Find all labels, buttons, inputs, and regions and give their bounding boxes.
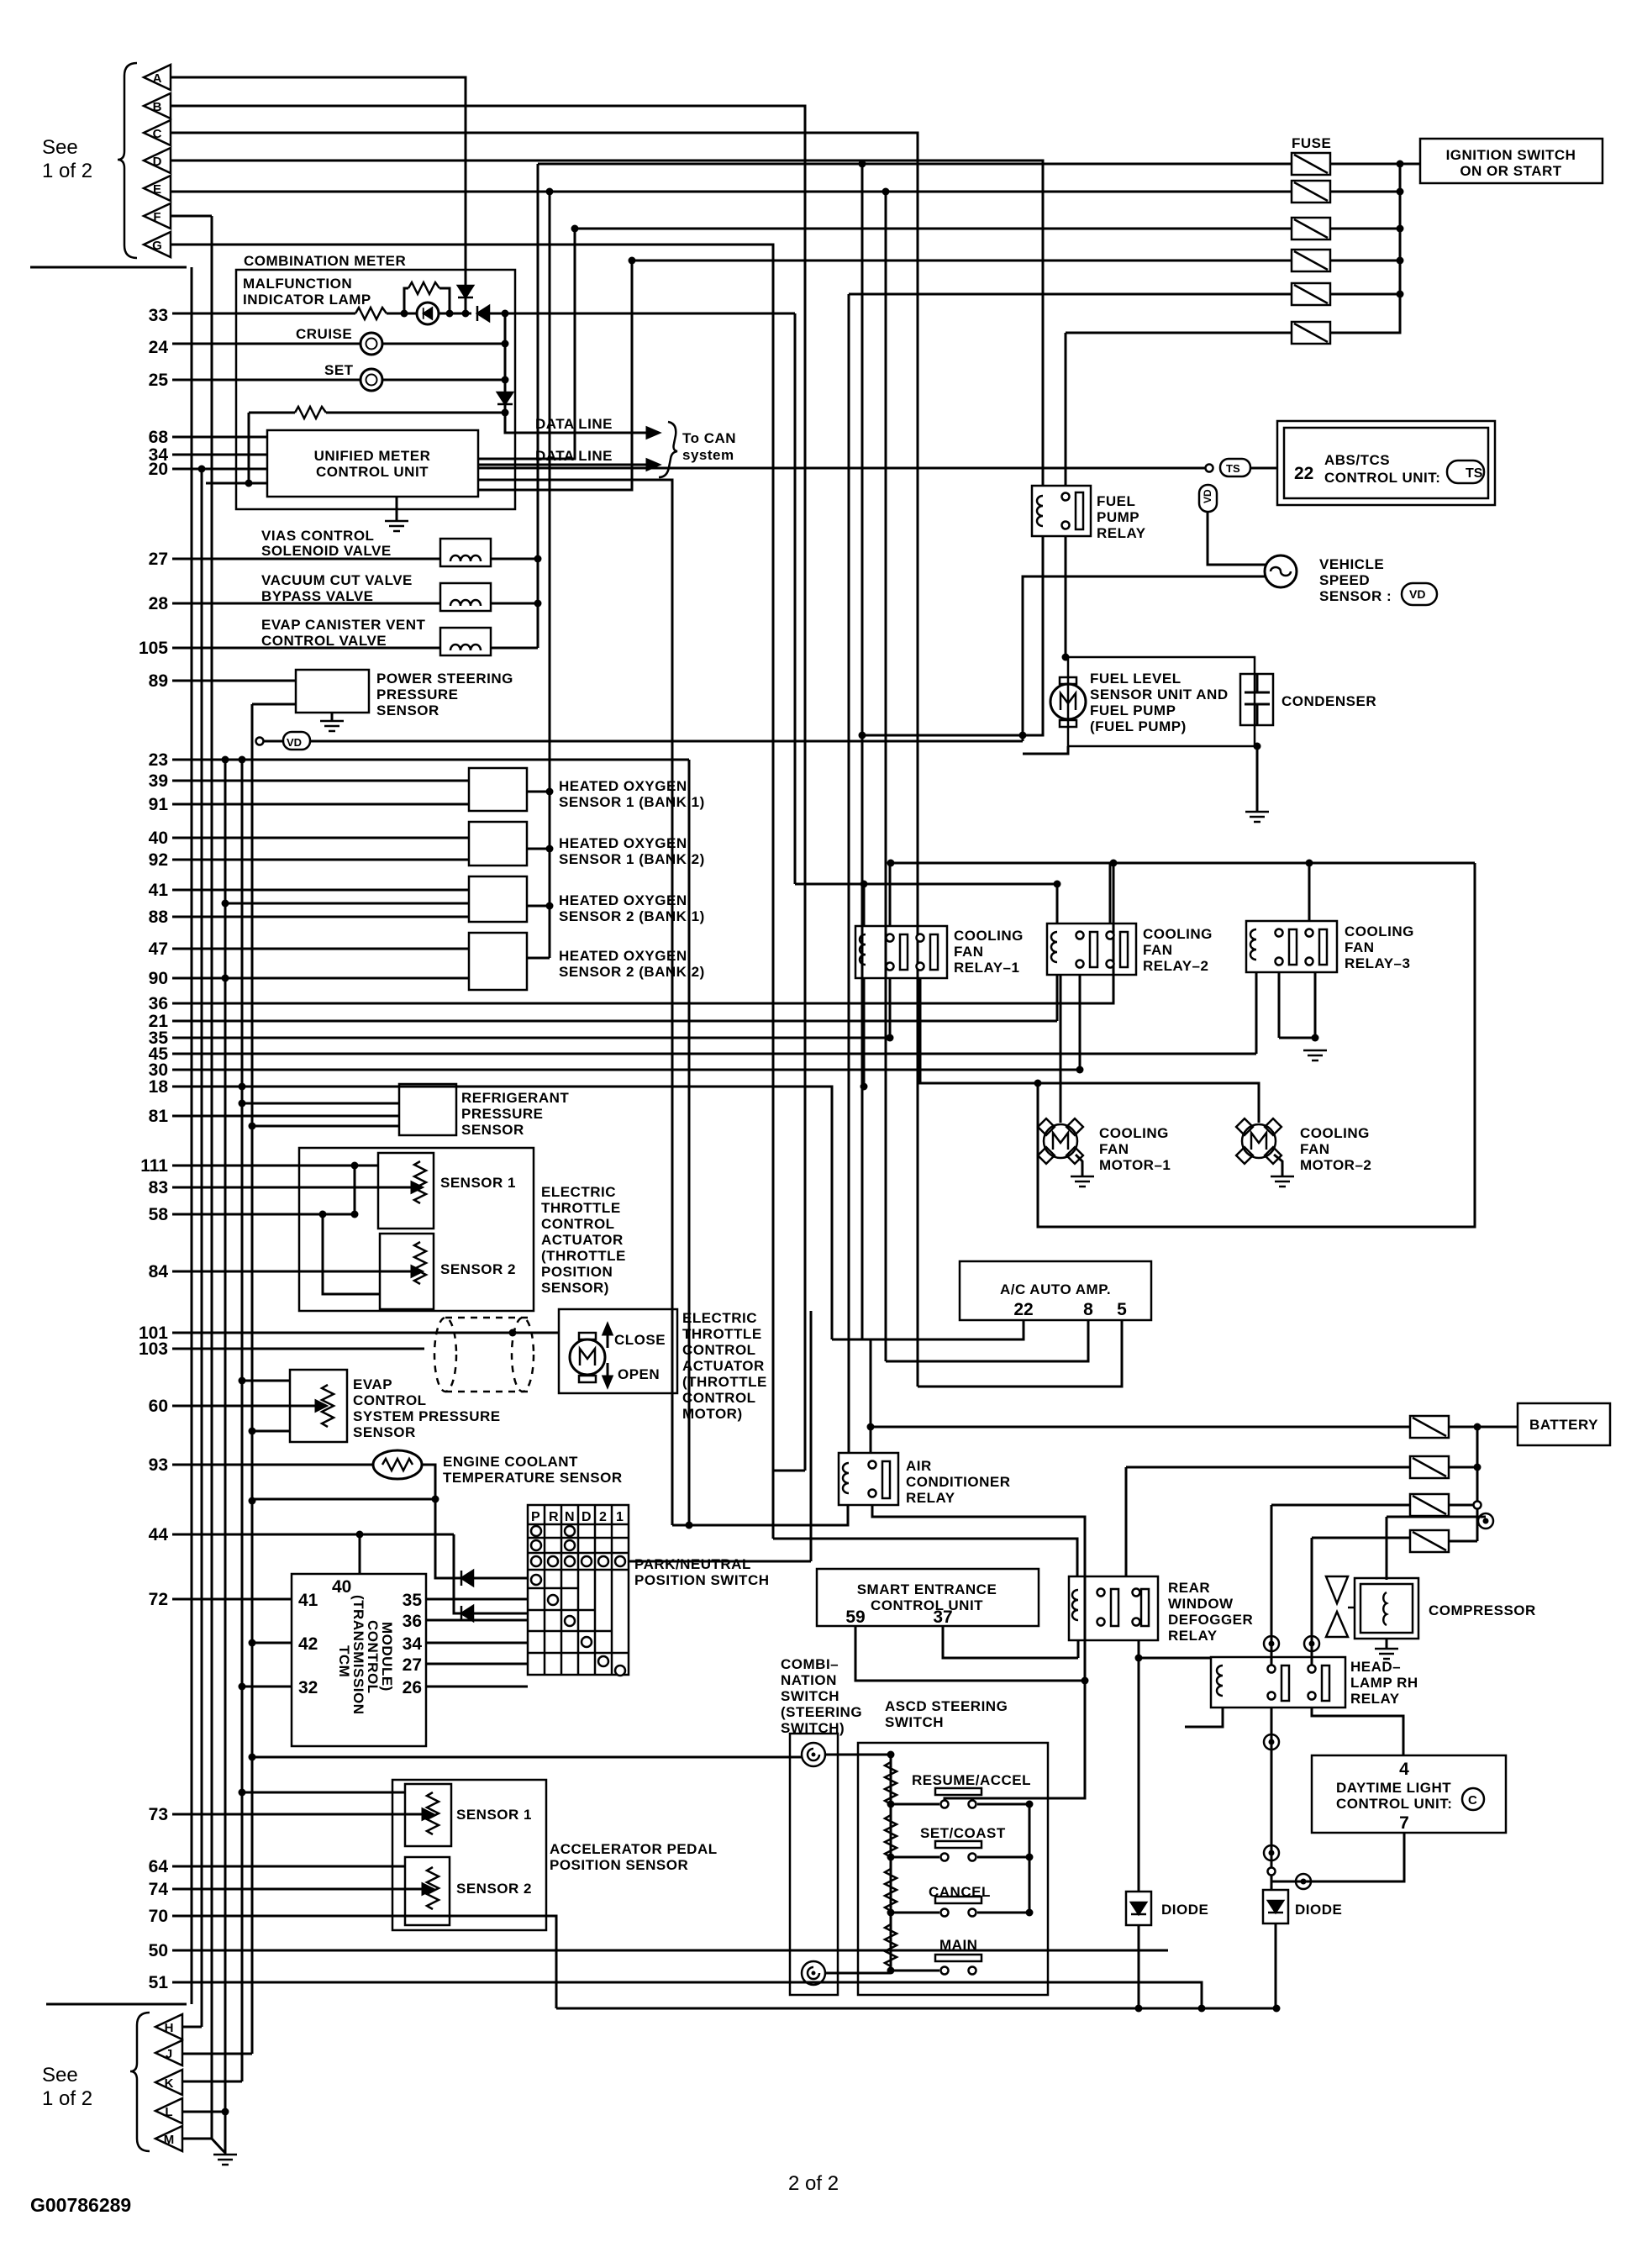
headlamp RH relay — [1211, 1657, 1345, 1708]
wire 84 with arrow — [172, 1271, 412, 1273]
svg-text:ACCELERATOR PEDAL: ACCELERATOR PEDAL — [550, 1841, 718, 1857]
svg-text:VD: VD — [1202, 489, 1213, 503]
svg-text:TCM: TCM — [336, 1645, 352, 1677]
svg-text:INDICATOR LAMP: INDICATOR LAMP — [243, 292, 371, 308]
wire A — [171, 77, 466, 313]
sensor feed top — [242, 1792, 405, 1794]
resistor loop above MIL — [404, 288, 408, 313]
combination meter box — [236, 270, 515, 509]
defogger contact output — [1138, 1640, 1140, 1658]
connector M — [155, 2126, 182, 2151]
svg-text:E: E — [153, 182, 161, 197]
cooling fan motor-2 — [1236, 1118, 1281, 1164]
connector J — [155, 2040, 182, 2065]
pin 22 stub — [832, 1320, 1024, 1339]
svg-text:F: F — [153, 210, 161, 224]
fuse 3 — [1292, 218, 1330, 239]
meter exit 1 — [478, 229, 575, 459]
connector A — [144, 65, 171, 90]
svg-text:2 of 2: 2 of 2 — [788, 2172, 839, 2195]
G wire to defogger — [773, 1539, 1077, 1576]
left separator bottom — [46, 2003, 187, 2006]
VIAS control solenoid valve — [440, 539, 491, 566]
fuse B feed to defogger — [1126, 1466, 1410, 1469]
heated oxygen sensor 2 bank 2 box — [469, 933, 527, 990]
svg-text:RELAY–1: RELAY–1 — [954, 960, 1019, 976]
svg-text:SENSOR 2 (BANK 2): SENSOR 2 (BANK 2) — [559, 964, 705, 980]
connector D — [144, 148, 171, 173]
trunk vertical 3 — [211, 216, 213, 2139]
AC relay contact feed — [870, 1339, 872, 1453]
svg-text:AIR: AIR — [906, 1458, 932, 1474]
connector K — [155, 2070, 182, 2095]
svg-text:(STEERING: (STEERING — [781, 1704, 862, 1720]
relay top feed line — [795, 883, 1057, 886]
svg-text:40: 40 — [332, 1577, 351, 1597]
throttle motor box — [559, 1309, 677, 1393]
connector F — [144, 203, 171, 229]
grid circles — [531, 1526, 541, 1536]
wire K — [182, 2081, 242, 2083]
battery box — [1518, 1403, 1610, 1445]
svg-text:41: 41 — [298, 1591, 318, 1610]
trunk vertical 5 — [241, 760, 244, 2081]
main row — [887, 1967, 895, 1975]
svg-text:See: See — [42, 2064, 78, 2086]
svg-text:HEATED OXYGEN: HEATED OXYGEN — [559, 892, 687, 908]
svg-text:22: 22 — [1294, 464, 1313, 483]
wire 83 with arrow — [172, 1187, 412, 1189]
wire 33 — [172, 313, 355, 315]
svg-text:SYSTEM PRESSURE: SYSTEM PRESSURE — [353, 1408, 501, 1424]
svg-text:SENSOR :: SENSOR : — [1319, 588, 1392, 604]
svg-text:LAMP RH: LAMP RH — [1350, 1675, 1418, 1691]
evap feed top — [242, 1380, 290, 1382]
vertical 946 from 33 row — [794, 313, 797, 884]
svg-text:23: 23 — [149, 750, 168, 770]
svg-text:SENSOR 1 (BANK 1): SENSOR 1 (BANK 1) — [559, 794, 705, 810]
resistor on MIL row — [355, 308, 387, 319]
wire from grid row to vertical — [629, 1560, 811, 1563]
battery fuse C — [1410, 1494, 1449, 1516]
diode branch 2 — [454, 1534, 528, 1613]
headlamp relay contact to daytime 4 — [1312, 1708, 1403, 1755]
svg-text:TS: TS — [1466, 466, 1483, 481]
svg-text:FUEL LEVEL: FUEL LEVEL — [1090, 671, 1182, 687]
svg-text:91: 91 — [149, 795, 169, 814]
svg-text:MALFUNCTION: MALFUNCTION — [243, 276, 352, 292]
svg-text:VD: VD — [287, 736, 302, 749]
svg-text:ABS/TCS: ABS/TCS — [1324, 452, 1390, 468]
wire G — [171, 245, 773, 1539]
svg-text:93: 93 — [149, 1455, 168, 1475]
svg-text:MODULE): MODULE) — [379, 1622, 395, 1692]
wire C — [171, 133, 918, 1387]
ground under unified meter — [396, 497, 398, 521]
svg-text:81: 81 — [149, 1107, 169, 1126]
svg-text:SENSOR): SENSOR) — [541, 1280, 609, 1296]
cruise indicator — [361, 333, 382, 355]
sensor 1 box — [378, 1153, 434, 1229]
svg-text:CONTROL UNIT:: CONTROL UNIT: — [1324, 470, 1440, 486]
svg-text:COOLING: COOLING — [954, 928, 1024, 944]
wire 51 — [172, 1982, 1202, 2008]
wire 70 — [172, 1916, 556, 2008]
relay-1 output to motor-2 — [920, 978, 1259, 1123]
headlamp relay contact down to diode2 — [1271, 1708, 1273, 1890]
evap feed bottom — [252, 1430, 290, 1433]
svg-text:41: 41 — [149, 881, 169, 900]
junction dots on trunks — [198, 466, 206, 473]
TCM 32 feed — [242, 1686, 292, 1688]
wire 58 — [172, 1213, 355, 1216]
svg-text:SENSOR 1: SENSOR 1 — [456, 1807, 532, 1823]
connector B — [144, 93, 171, 118]
svg-text:SPEED: SPEED — [1319, 572, 1370, 588]
battery bus vertical — [1449, 1426, 1477, 1429]
svg-text:72: 72 — [149, 1590, 168, 1609]
data line 2 — [478, 464, 647, 466]
svg-text:REAR: REAR — [1168, 1580, 1210, 1596]
wire 60 with arrow — [172, 1405, 316, 1408]
svg-text:COMPRESSOR: COMPRESSOR — [1429, 1602, 1536, 1618]
svg-text:84: 84 — [149, 1262, 169, 1281]
compressor ground — [1386, 1639, 1388, 1649]
svg-text:ELECTRIC: ELECTRIC — [541, 1184, 616, 1200]
wire 28 — [172, 603, 440, 605]
svg-text:SENSOR 1: SENSOR 1 — [440, 1175, 516, 1191]
heated oxygen sensor 2 bank 1 box — [469, 876, 527, 922]
bottom long rail — [556, 2008, 1276, 2010]
svg-text:64: 64 — [149, 1857, 169, 1876]
smart entrance control unit box — [817, 1569, 1039, 1626]
wire J — [182, 2053, 252, 2055]
svg-text:DAYTIME LIGHT: DAYTIME LIGHT — [1336, 1780, 1451, 1796]
wire 81 — [172, 1115, 399, 1118]
svg-text:HEATED OXYGEN: HEATED OXYGEN — [559, 778, 687, 794]
svg-text:C: C — [1468, 1793, 1477, 1808]
data line 1 — [505, 413, 647, 433]
svg-text:K: K — [165, 2076, 174, 2091]
wire 105 — [172, 647, 440, 650]
ground under ps sensor — [331, 713, 334, 721]
wire 64 — [172, 1865, 405, 1868]
wire 23 — [172, 759, 689, 761]
wire 103 — [172, 1348, 424, 1350]
svg-text:60: 60 — [149, 1397, 168, 1416]
MIL lamp LED — [417, 303, 439, 324]
headlamp relay coil return — [1185, 1708, 1223, 1727]
svg-text:RELAY–2: RELAY–2 — [1143, 958, 1208, 974]
A/C auto amp box — [960, 1261, 1151, 1320]
svg-text:SENSOR UNIT AND: SENSOR UNIT AND — [1090, 687, 1229, 703]
trunk vertical 6 — [251, 704, 254, 2054]
wire 25 set — [172, 379, 361, 382]
svg-text:33: 33 — [149, 306, 168, 325]
svg-text:44: 44 — [149, 1525, 169, 1544]
svg-text:51: 51 — [149, 1973, 169, 1992]
defogger coil return — [1077, 1640, 1080, 1658]
svg-text:26: 26 — [403, 1678, 422, 1697]
park/neutral position switch grid — [528, 1505, 629, 1675]
svg-text:B: B — [153, 100, 162, 114]
battery fuse A — [1410, 1416, 1449, 1438]
defogger relay coil to diode 1 — [1138, 1658, 1140, 1892]
sensor 2 box — [405, 1857, 450, 1925]
svg-text:HEATED OXYGEN: HEATED OXYGEN — [559, 948, 687, 964]
vehicle speed sensor wire — [1208, 512, 1266, 565]
vertical from fuse5 — [848, 294, 850, 1453]
TCM right pins to grid — [426, 1598, 528, 1601]
svg-text:88: 88 — [149, 908, 169, 927]
svg-text:H: H — [165, 2021, 174, 2035]
fuse C feed to headlamp relay — [1271, 1504, 1410, 1507]
svg-text:PRESSURE: PRESSURE — [461, 1106, 544, 1122]
vacuum cut valve bypass valve — [440, 583, 491, 611]
fuel pump relay box — [1032, 486, 1091, 536]
open arrow — [607, 1363, 609, 1385]
44 to TCM pin 40 — [359, 1534, 361, 1574]
resume/accel row — [887, 1801, 895, 1808]
svg-text:BATTERY: BATTERY — [1529, 1417, 1598, 1433]
refrigerant feed bottom — [252, 1125, 399, 1128]
spiral to ASCD rail — [825, 1754, 891, 1756]
close arrow — [607, 1326, 609, 1348]
svg-text:COOLING: COOLING — [1300, 1125, 1370, 1141]
compressor feed — [1387, 1516, 1486, 1518]
refrigerant pressure sensor box — [399, 1084, 456, 1135]
svg-text:FAN: FAN — [1345, 939, 1375, 955]
TCM 42 feed — [252, 1642, 292, 1644]
svg-text:FAN: FAN — [1300, 1141, 1330, 1157]
svg-text:SWITCH: SWITCH — [885, 1714, 944, 1730]
wire 73 with arrow — [172, 1813, 423, 1816]
svg-text:VACUUM CUT VALVE: VACUUM CUT VALVE — [261, 572, 413, 588]
connector C — [144, 120, 171, 145]
fuel pump relay coil return — [862, 536, 1043, 735]
svg-text:CONTROL UNIT:: CONTROL UNIT: — [1336, 1796, 1452, 1812]
svg-text:24: 24 — [149, 338, 169, 357]
VD capsule on vertical — [1199, 485, 1217, 512]
O2 common rail vertical — [549, 192, 551, 958]
svg-text:TS: TS — [1226, 462, 1240, 475]
svg-text:UNIFIED METER: UNIFIED METER — [314, 448, 431, 464]
wire 89 — [172, 680, 296, 682]
fuse 5 — [1292, 283, 1330, 305]
svg-text:COMBI–: COMBI– — [781, 1656, 839, 1672]
ABS/TCS control unit box — [1277, 421, 1495, 505]
circled connectors above headlamp relay — [1264, 1636, 1279, 1651]
svg-text:83: 83 — [149, 1178, 168, 1197]
svg-text:25: 25 — [149, 371, 169, 390]
svg-text:CONTROL VALVE: CONTROL VALVE — [261, 633, 387, 649]
EVAP control system pressure sensor box — [290, 1370, 347, 1442]
cooling fan relay-3 — [1246, 921, 1337, 972]
svg-text:SET/COAST: SET/COAST — [920, 1825, 1006, 1841]
svg-text:FAN: FAN — [1143, 942, 1173, 958]
condenser — [1240, 674, 1273, 725]
diode column vertical — [504, 313, 507, 433]
svg-text:37: 37 — [933, 1608, 952, 1627]
trunk vertical 1054 — [885, 192, 887, 1361]
svg-text:SMART ENTRANCE: SMART ENTRANCE — [857, 1581, 997, 1597]
wire D to fuel pump relay — [171, 160, 1043, 486]
svg-text:CONTROL: CONTROL — [682, 1342, 756, 1358]
svg-text:See: See — [42, 136, 78, 159]
fuse 3 feed line — [575, 228, 1292, 230]
TCM box — [292, 1574, 426, 1746]
ignition switch box — [1420, 139, 1603, 183]
meter exit 3 — [478, 480, 672, 1525]
svg-text:28: 28 — [149, 594, 169, 613]
svg-text:SENSOR 2: SENSOR 2 — [440, 1261, 516, 1277]
svg-text:CLOSE: CLOSE — [614, 1332, 666, 1348]
svg-text:RELAY: RELAY — [906, 1490, 955, 1506]
fuse 2 — [1292, 181, 1330, 203]
svg-text:system: system — [682, 447, 734, 463]
svg-text:RELAY–3: RELAY–3 — [1345, 955, 1410, 971]
fuse outputs to ignition bus — [1330, 163, 1420, 166]
svg-text:EVAP CANISTER VENT: EVAP CANISTER VENT — [261, 617, 426, 633]
svg-text:N: N — [565, 1510, 575, 1524]
wire B — [171, 106, 805, 1471]
EVAP canister vent control valve — [440, 628, 491, 655]
svg-text:COMBINATION METER: COMBINATION METER — [244, 253, 406, 269]
svg-text:M: M — [164, 2133, 175, 2147]
wire 74 with arrow — [172, 1888, 423, 1891]
svg-text:D: D — [582, 1510, 592, 1524]
ps sensor second wire — [252, 703, 296, 706]
wire H — [182, 2026, 202, 2029]
svg-text:4: 4 — [1399, 1760, 1409, 1779]
wire 36 — [172, 863, 1113, 1003]
svg-text:SENSOR 1 (BANK 2): SENSOR 1 (BANK 2) — [559, 851, 705, 867]
trunk vertical 2 — [201, 469, 203, 2027]
svg-text:(TRANSMISSION: (TRANSMISSION — [350, 1595, 366, 1715]
TS oval in ABS label — [1447, 460, 1484, 483]
fuse 1 — [1292, 153, 1330, 175]
svg-text:SET: SET — [324, 362, 354, 378]
svg-text:A/C AUTO AMP.: A/C AUTO AMP. — [1000, 1281, 1111, 1297]
svg-text:DIODE: DIODE — [1161, 1902, 1208, 1918]
svg-text:36: 36 — [403, 1612, 422, 1631]
wire 101 — [172, 1332, 559, 1334]
svg-text:1: 1 — [616, 1510, 624, 1524]
diode down on column — [497, 392, 513, 404]
TS connector on wire — [1206, 465, 1213, 472]
wire 30 — [172, 1069, 1078, 1071]
wire 34 — [172, 454, 267, 456]
fuel pump relay feed — [1065, 333, 1067, 486]
svg-text:ELECTRIC: ELECTRIC — [682, 1310, 757, 1326]
svg-text:CONTROL: CONTROL — [541, 1216, 615, 1232]
wire 50 — [172, 1950, 1168, 1952]
connector H — [155, 2014, 182, 2039]
sensor 1 box — [405, 1784, 451, 1846]
svg-text:MOTOR–1: MOTOR–1 — [1099, 1157, 1171, 1173]
svg-text:SOLENOID VALVE: SOLENOID VALVE — [261, 543, 392, 559]
sensor 2 box — [380, 1234, 434, 1309]
svg-text:THROTTLE: THROTTLE — [541, 1200, 621, 1216]
svg-text:74: 74 — [149, 1880, 169, 1899]
svg-text:(THROTTLE: (THROTTLE — [541, 1248, 626, 1264]
svg-text:36: 36 — [149, 994, 168, 1013]
electric throttle actuator box — [299, 1148, 534, 1311]
svg-text:PARK/NEUTRAL: PARK/NEUTRAL — [634, 1556, 751, 1572]
rail resistors — [885, 1762, 897, 1804]
fuse 4 — [1292, 250, 1330, 271]
fuse 6 — [1292, 322, 1330, 344]
brace to CAN — [659, 422, 677, 477]
svg-text:CONDITIONER: CONDITIONER — [906, 1474, 1011, 1490]
bottom spiral — [802, 1961, 825, 1985]
svg-text:POWER STEERING: POWER STEERING — [376, 671, 513, 687]
svg-text:FUEL PUMP: FUEL PUMP — [1090, 703, 1176, 718]
ECT return wire — [252, 1465, 435, 1499]
svg-text:MAIN: MAIN — [939, 1937, 977, 1953]
svg-text:IGNITION SWITCH: IGNITION SWITCH — [1446, 147, 1576, 163]
svg-text:105: 105 — [139, 639, 168, 658]
svg-text:SENSOR: SENSOR — [376, 703, 439, 718]
wire 27 — [172, 558, 440, 560]
svg-text:34: 34 — [403, 1634, 423, 1654]
svg-text:MOTOR): MOTOR) — [682, 1406, 743, 1422]
wire 72 to TCM 41 — [172, 1598, 292, 1601]
svg-text:FUSE: FUSE — [1292, 135, 1331, 151]
wire E to fuse 2 — [171, 191, 1292, 193]
daytime light control unit box — [1312, 1755, 1506, 1833]
wire L — [182, 2111, 225, 2113]
right rail — [1029, 1804, 1031, 1913]
cooling fan motor-1 — [1038, 1118, 1083, 1164]
trunk vertical 1 — [191, 267, 193, 2004]
fuse D feed — [1312, 1537, 1410, 1539]
svg-text:40: 40 — [149, 829, 168, 848]
svg-text:DATA LINE: DATA LINE — [535, 448, 613, 464]
vehicle speed sensor circle — [1265, 555, 1297, 587]
battery fuse B — [1410, 1456, 1449, 1478]
svg-text:7: 7 — [1399, 1813, 1409, 1833]
svg-text:WINDOW: WINDOW — [1168, 1596, 1234, 1612]
B join — [773, 1470, 805, 1472]
svg-text:73: 73 — [149, 1805, 168, 1824]
svg-text:(THROTTLE: (THROTTLE — [682, 1374, 767, 1390]
spiral feed line from left — [252, 1756, 802, 1759]
pin 7 stub — [1271, 1833, 1404, 1881]
svg-text:70: 70 — [149, 1907, 168, 1926]
trunk vertical 4 — [224, 760, 227, 2155]
svg-text:CONTROL UNIT: CONTROL UNIT — [871, 1597, 983, 1613]
svg-text:59: 59 — [845, 1608, 865, 1627]
set/coast row — [887, 1854, 895, 1861]
cooling fan relay-1 — [855, 926, 947, 978]
resistor row in meter — [249, 412, 295, 414]
ECT diode branch — [435, 1499, 528, 1578]
svg-text:CONTROL UNIT: CONTROL UNIT — [316, 464, 429, 480]
svg-text:MOTOR–2: MOTOR–2 — [1300, 1157, 1371, 1173]
svg-text:DEFOGGER: DEFOGGER — [1168, 1612, 1253, 1628]
diode left-pointing on 33 row — [477, 306, 489, 321]
svg-text:47: 47 — [149, 939, 168, 959]
ground bottom-left — [213, 2155, 237, 2165]
svg-text:50: 50 — [149, 1941, 168, 1960]
svg-text:58: 58 — [149, 1205, 169, 1224]
svg-text:DIODE: DIODE — [1295, 1902, 1342, 1918]
wire 20 — [172, 468, 267, 471]
valve feed vertical from fuse1 line — [538, 163, 1292, 166]
svg-text:SWITCH): SWITCH) — [781, 1720, 845, 1736]
heated oxygen sensor 1 bank 1 box — [469, 768, 527, 811]
